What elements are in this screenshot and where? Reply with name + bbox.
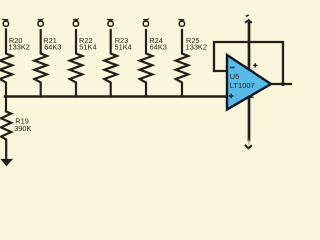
svg-text:51K4: 51K4 <box>115 43 132 52</box>
resistor R19 <box>1 97 11 160</box>
pin - (inverting) <box>230 67 235 69</box>
svg-text:LT1007: LT1007 <box>230 81 255 90</box>
op-amp U5 <box>227 55 271 110</box>
svg-text:64K3: 64K3 <box>44 43 61 52</box>
wire V+ supply <box>248 23 251 70</box>
node Q5 (rotated label) <box>143 18 149 26</box>
svg-text:133K2: 133K2 <box>9 43 30 52</box>
svg-text:64K3: 64K3 <box>150 43 167 52</box>
node label V- minus sign <box>250 96 254 98</box>
wire V- supply <box>248 97 251 140</box>
resistor R24 <box>140 30 153 97</box>
ground <box>1 159 12 166</box>
node V- arrow <box>245 140 252 149</box>
resistor R25 <box>176 30 189 97</box>
svg-text:390K: 390K <box>14 124 31 133</box>
node Q4 (rotated label) <box>107 19 113 26</box>
node V+ arrow <box>245 15 252 23</box>
resistor R22 <box>70 30 83 97</box>
wire feedback loop <box>214 42 283 84</box>
node Q3 (rotated label) <box>73 18 79 26</box>
wire output <box>270 83 292 85</box>
node Q6 (rotated label) <box>178 19 184 26</box>
resistor R20 <box>0 30 12 97</box>
node Q1 (rotated label) <box>2 19 9 26</box>
svg-text:133K2: 133K2 <box>186 43 207 52</box>
node label V+ plus sign <box>253 63 257 67</box>
resistor R21 <box>34 30 47 97</box>
svg-text:U5: U5 <box>230 72 239 81</box>
node Q2 (rotated label) <box>38 18 44 26</box>
junction dot output/feedback <box>281 82 285 86</box>
resistor R23 <box>104 30 117 97</box>
svg-text:51K4: 51K4 <box>79 43 96 52</box>
wire bus to +input <box>5 95 228 97</box>
pin + (non-inverting) <box>229 94 234 98</box>
